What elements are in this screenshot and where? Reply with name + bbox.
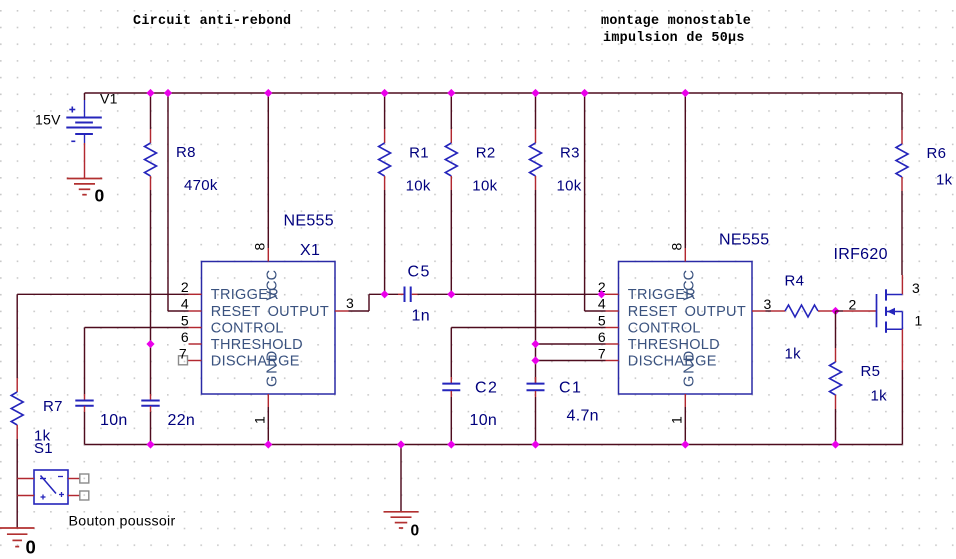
svg-text:7: 7 <box>179 346 187 362</box>
resistor R1 <box>384 129 386 143</box>
svg-text:R7: R7 <box>43 398 63 415</box>
resistor R4 <box>771 310 785 312</box>
wire VCC rail corner to R6 <box>901 93 903 130</box>
svg-text:NE555: NE555 <box>284 212 334 229</box>
wire trigger U1 <box>17 293 188 295</box>
wire U1 VCC to rail <box>267 93 269 248</box>
svg-text:10k: 10k <box>472 178 497 195</box>
svg-text:6: 6 <box>181 329 189 345</box>
svg-text:1: 1 <box>251 416 267 424</box>
svg-text:R1: R1 <box>409 145 429 162</box>
wire R6 to Q1 drain <box>901 191 903 275</box>
ground (battery) <box>67 178 103 180</box>
svg-text:DISCHARGE: DISCHARGE <box>211 354 300 370</box>
svg-text:R3: R3 <box>560 145 580 162</box>
wire discharge U2 <box>536 360 606 362</box>
svg-text:1: 1 <box>915 313 923 329</box>
resistor R6 <box>901 130 903 144</box>
wire VCC rail to R8 <box>150 93 152 129</box>
svg-text:10k: 10k <box>557 178 582 195</box>
wire R5 to ground rail <box>835 409 837 445</box>
U1 unconnected pin square (pin 7) <box>179 356 188 365</box>
svg-text:3: 3 <box>346 295 354 311</box>
wire top VCC rail <box>85 92 903 94</box>
svg-text:3: 3 <box>912 280 920 296</box>
svg-text:CONTROL: CONTROL <box>628 320 701 336</box>
transistor Q1 IRF620 <box>876 294 878 327</box>
svg-text:IRF620: IRF620 <box>834 246 888 263</box>
wire gate node to Q1 gate <box>836 310 844 312</box>
svg-text:montage monostable: montage monostable <box>601 14 751 29</box>
resistor R8 <box>150 129 152 143</box>
svg-text:10n: 10n <box>100 412 128 429</box>
svg-text:V1: V1 <box>100 91 118 107</box>
op-amp/timer U1 NE555 body <box>202 262 336 395</box>
svg-text:RESET: RESET <box>211 304 261 320</box>
wire R1 to output node <box>384 190 386 294</box>
svg-text:Circuit anti-rebond: Circuit anti-rebond <box>133 14 291 29</box>
svg-text:THRESHOLD: THRESHOLD <box>628 337 720 353</box>
junction (22n/ground rail) <box>146 440 154 448</box>
junction (R1/VCC rail) <box>381 89 389 97</box>
wire R2 to trigger node <box>450 190 452 294</box>
svg-text:1k: 1k <box>785 346 802 363</box>
wire R8 to threshold node <box>150 190 152 344</box>
svg-text:GND: GND <box>265 349 281 387</box>
U2 pin 7 stub <box>606 360 619 362</box>
svg-text:THRESHOLD: THRESHOLD <box>211 337 303 353</box>
junction (U2 GND/ground rail) <box>681 440 689 448</box>
svg-text:VCC: VCC <box>682 270 698 301</box>
junction (reset wire/VCC rail) <box>164 89 172 97</box>
wire VCC rail to R1 <box>384 93 386 129</box>
ground (S1) <box>0 527 34 529</box>
svg-text:CONTROL: CONTROL <box>211 320 284 336</box>
svg-text:4: 4 <box>181 296 189 312</box>
U1 pin 8 stub <box>267 248 269 262</box>
op-amp/timer U2 NE555 body <box>619 262 753 395</box>
wire ground rail to ground symbol <box>400 445 402 512</box>
svg-text:C2: C2 <box>475 379 498 396</box>
junction (U2 reset/VCC rail) <box>581 89 589 97</box>
wire VCC rail to R2 <box>450 93 452 129</box>
resistor R7 <box>16 378 18 392</box>
unconnected pin square (S1 bottom) <box>80 491 89 500</box>
wire U2 output to R4 <box>766 310 772 312</box>
svg-text:R5: R5 <box>861 363 881 380</box>
junction (R2/VCC rail) <box>447 89 455 97</box>
svg-text:6: 6 <box>598 329 606 345</box>
svg-text:OUTPUT: OUTPUT <box>268 304 329 320</box>
svg-text:GND: GND <box>682 349 698 387</box>
junction (U2 VCC/rail) <box>681 89 689 97</box>
svg-text:X1: X1 <box>300 242 320 259</box>
U2 pin 1 stub <box>684 394 686 407</box>
svg-text:C5: C5 <box>408 264 431 281</box>
capacitor C2 <box>450 377 452 383</box>
wire S1 pin left-bottom <box>17 495 34 497</box>
svg-text:R6: R6 <box>927 145 947 162</box>
svg-text:8: 8 <box>252 243 268 251</box>
wire control U1 <box>85 327 189 329</box>
svg-text:10k: 10k <box>406 178 431 195</box>
svg-text:3: 3 <box>764 296 772 312</box>
junction (U1 VCC/rail) <box>264 89 272 97</box>
wire 10n to ground rail <box>84 412 86 445</box>
wire VCC rail to reset U1 <box>167 93 169 311</box>
svg-text:C1: C1 <box>559 379 582 396</box>
svg-text:R8: R8 <box>176 144 196 161</box>
svg-text:8: 8 <box>669 243 685 251</box>
svg-text:1k: 1k <box>936 172 953 189</box>
svg-text:R2: R2 <box>476 145 496 162</box>
junction (C1/ground rail) <box>531 440 539 448</box>
svg-text:1: 1 <box>668 416 684 424</box>
resistor R2 <box>450 129 452 143</box>
junction (R8/VCC rail) <box>146 89 154 97</box>
wire control U2 <box>451 327 605 329</box>
wire threshold U2 <box>536 343 606 345</box>
wire VCC rail to R3 <box>535 93 537 129</box>
svg-text:VCC: VCC <box>265 270 281 301</box>
junction (threshold U2) <box>531 340 539 348</box>
svg-text:S1: S1 <box>34 440 53 457</box>
wire bottom ground rail <box>85 444 903 446</box>
wire 22n to ground rail <box>150 412 152 445</box>
svg-text:DISCHARGE: DISCHARGE <box>628 354 717 370</box>
wire C1 to ground rail <box>535 397 537 445</box>
battery V1 lead to ground <box>84 143 86 178</box>
wire U2 VCC to rail <box>684 93 686 248</box>
U1 pin 3 stub <box>335 310 349 312</box>
wire gate node down to R5 <box>835 311 837 348</box>
wire C2 to ground rail <box>450 397 452 445</box>
U2 pin 8 stub <box>684 248 686 262</box>
wire U1 GND to ground rail <box>267 407 269 445</box>
svg-text:4.7n: 4.7n <box>567 408 599 425</box>
svg-text:7: 7 <box>598 346 606 362</box>
junction (U2 trigger) <box>597 290 605 298</box>
wire C5 to U2 trigger <box>418 293 606 295</box>
junction (R1/C5 node) <box>381 290 389 298</box>
wire R4 to gate node <box>832 310 836 312</box>
svg-text:10n: 10n <box>470 412 498 429</box>
svg-text:0: 0 <box>95 186 105 206</box>
capacitor 22n <box>150 394 152 400</box>
svg-text:Bouton poussoir: Bouton poussoir <box>69 513 176 529</box>
wire threshold node to C4 <box>150 344 152 394</box>
resistor R5 <box>835 348 837 362</box>
unconnected pin square (S1 top) <box>80 474 89 483</box>
ground (center) <box>384 511 419 513</box>
U1 left pin stubs <box>189 293 202 295</box>
svg-text:470k: 470k <box>184 177 218 194</box>
battery V1 <box>84 93 86 100</box>
U2 pin 3 stub <box>752 310 766 312</box>
svg-text:impulsion de 50µs: impulsion de 50µs <box>603 31 745 46</box>
capacitor C5 <box>398 293 404 295</box>
junction (C2/ground rail) <box>447 440 455 448</box>
svg-text:5: 5 <box>181 312 189 328</box>
svg-text:0: 0 <box>411 523 420 540</box>
junction (R5/ground rail) <box>831 440 839 448</box>
svg-text:RESET: RESET <box>628 304 678 320</box>
junction (R3/VCC rail) <box>531 89 539 97</box>
S1 right stub bottom <box>68 495 80 497</box>
svg-text:1n: 1n <box>412 308 430 325</box>
junction (U1 GND/ground rail) <box>264 440 272 448</box>
svg-text:5: 5 <box>598 312 606 328</box>
svg-text:4: 4 <box>598 296 606 312</box>
svg-text:0: 0 <box>26 537 37 558</box>
wire VCC rail to reset U2 <box>584 93 586 311</box>
wire R7 to switch and ground <box>16 439 18 528</box>
svg-text:OUTPUT: OUTPUT <box>685 304 746 320</box>
wire S1 pin left-top <box>17 478 34 480</box>
svg-text:2: 2 <box>849 297 857 313</box>
capacitor 10n (C3) <box>84 394 86 400</box>
capacitor C1 <box>535 377 537 383</box>
junction (gate node) <box>831 307 839 315</box>
wire U2 GND to ground rail <box>684 407 686 445</box>
wire U1 output jog <box>349 310 370 312</box>
wire Q1 source to ground rail <box>901 329 903 370</box>
switch S1 (push button) <box>34 470 68 504</box>
junction (discharge U2) <box>531 356 539 364</box>
U1 pin 7 stub <box>188 360 202 362</box>
svg-text:2: 2 <box>181 279 189 295</box>
junction (R2/trigger node) <box>447 290 455 298</box>
svg-text:1k: 1k <box>871 388 888 405</box>
wire R3 down to threshold U2 <box>535 190 537 383</box>
svg-text:NE555: NE555 <box>719 232 769 249</box>
U1 pin 1 stub <box>267 394 269 407</box>
S1 right stub top <box>68 478 80 480</box>
resistor R3 <box>535 129 537 143</box>
U2 left pin stubs <box>606 293 619 295</box>
svg-text:22n: 22n <box>168 412 196 429</box>
junction (center ground) <box>397 440 405 448</box>
svg-text:15V: 15V <box>35 112 61 128</box>
svg-text:R4: R4 <box>785 273 805 290</box>
junction (R8/threshold) <box>146 340 154 348</box>
